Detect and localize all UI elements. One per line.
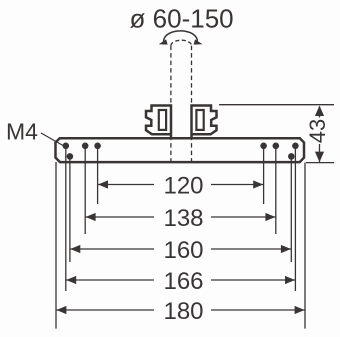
extension line 180 left — [55, 162, 57, 329]
dashed pipe right line — [191, 46, 193, 162]
hole dot R2 (138) — [273, 143, 280, 150]
svg-text:180: 180 — [163, 298, 203, 325]
43 dim bottom extension line — [306, 162, 334, 164]
svg-text:43: 43 — [305, 119, 330, 143]
hole dot R4 (166) — [292, 143, 299, 150]
svg-text:138: 138 — [163, 205, 203, 232]
hole dot L3 (138) — [82, 143, 89, 150]
range arc right arrowhead — [194, 39, 204, 46]
M4 leader line — [41, 133, 63, 146]
hole dot R1 (120) — [260, 143, 267, 150]
43 dimension line — [319, 107, 321, 118]
dashed pipe left line — [170, 46, 172, 162]
dimension 120 line — [98, 184, 154, 186]
svg-text:166: 166 — [163, 268, 203, 295]
extension line 160 right — [290, 156, 292, 262]
extension line 166 right — [294, 146, 296, 291]
body (base bar, chamfered octagon) — [56, 138, 305, 162]
dimension 160 line — [70, 248, 154, 250]
extension line 120 right — [263, 146, 265, 204]
clamp left jaw outline — [146, 106, 171, 139]
extension line 166 left — [65, 146, 67, 291]
svg-text:160: 160 — [163, 237, 203, 264]
extension line 138 right — [275, 146, 277, 234]
dimension 166 line — [66, 279, 154, 281]
extension line 120 left — [97, 146, 99, 204]
dimension 180 line — [56, 309, 154, 311]
extension line 180 right — [304, 163, 306, 329]
clamp right jaw outline — [192, 106, 217, 139]
dashed pipe top arc — [171, 40, 192, 45]
extension line 160 left — [69, 156, 71, 262]
hole dot R3 (160, lower) — [288, 153, 295, 160]
clamp left jaw inner rect — [159, 110, 166, 130]
clamp right jaw inner rect — [196, 110, 203, 130]
dimension 138 line — [85, 216, 154, 218]
hole dot L4 (120) — [94, 143, 101, 150]
extension line 138 left — [84, 146, 86, 234]
svg-text:M4: M4 — [6, 119, 38, 145]
hole dot L1 (166) — [63, 143, 70, 150]
hole dot L2 (160, lower) — [67, 153, 74, 160]
range arc — [163, 31, 197, 42]
range arc left arrowhead — [158, 39, 168, 46]
svg-text:ø 60-150: ø 60-150 — [130, 4, 234, 34]
43 dim top extension line — [219, 104, 334, 106]
svg-text:120: 120 — [163, 172, 203, 199]
